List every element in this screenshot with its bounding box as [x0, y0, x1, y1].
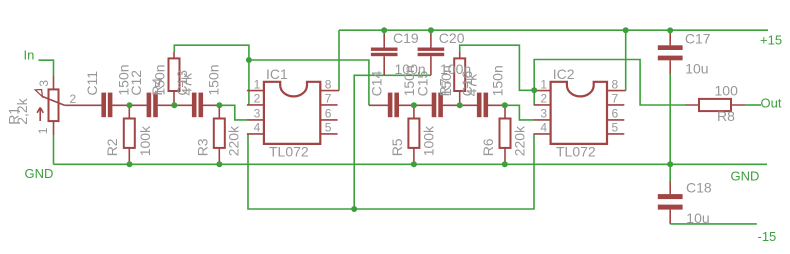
junction C14 R5 C15 — [411, 102, 417, 108]
op-amp IC2 body outline — [551, 82, 607, 144]
junction node B IC2 pins1-2 — [531, 87, 537, 93]
op-amp IC1 pin 6 stub — [320, 119, 337, 121]
op-amp IC1 pin 2 stub — [247, 104, 264, 106]
svg-text:1: 1 — [254, 77, 261, 91]
resistor R6 leads — [504, 105, 506, 164]
svg-text:Out: Out — [761, 96, 782, 111]
capacitor C12 plates — [147, 93, 152, 118]
wire R7 top feedback to IC2 pins1-2 — [460, 45, 535, 90]
wire pot wiper to C11 — [65, 104, 102, 106]
op-amp IC2 pin 8 stub — [607, 90, 626, 92]
svg-text:R7: R7 — [436, 78, 452, 96]
wire IC2 pin2 link — [533, 90, 535, 105]
svg-text:2: 2 — [540, 92, 547, 106]
resistor R8 leads — [685, 104, 745, 106]
capacitor C13 plates — [192, 93, 197, 118]
op-amp IC2 pin 6 stub — [607, 119, 624, 121]
wire IC1 pins1-2 tie — [248, 60, 250, 105]
junction R3 GND — [216, 161, 222, 167]
wire IC2 pin3 jog — [505, 105, 534, 120]
svg-text:47k: 47k — [464, 73, 480, 97]
svg-text:C20: C20 — [439, 30, 465, 46]
svg-text:IC1: IC1 — [266, 66, 288, 82]
potentiometer R1 trim arrow — [37, 108, 43, 122]
svg-text:47k: 47k — [179, 72, 195, 96]
op-amp IC1 pin 8 stub — [320, 90, 339, 92]
svg-text:10u: 10u — [686, 210, 709, 226]
wire In lead — [39, 60, 54, 75]
svg-text:100k: 100k — [420, 125, 436, 156]
resistor R8 body — [699, 99, 731, 111]
svg-text:100k: 100k — [137, 125, 153, 156]
svg-text:R6: R6 — [480, 138, 496, 156]
junction R2 GND — [127, 161, 133, 167]
capacitor C20 plates — [418, 48, 445, 51]
wire C18 bottom to -15 — [670, 223, 757, 225]
wire GND rail — [54, 163, 768, 165]
wire C14 to junction R5 — [399, 104, 432, 106]
resistor R5 body — [408, 119, 419, 148]
junction C12 R4 C13 — [171, 102, 177, 108]
svg-text:6: 6 — [612, 107, 619, 121]
wire IC1 pin8 riser — [338, 30, 340, 90]
svg-text:In: In — [24, 47, 35, 62]
capacitor C11 plates — [101, 93, 106, 118]
node A to stage2 input drop — [249, 60, 369, 105]
op-amp IC1 pin 1 stub — [247, 90, 264, 92]
op-amp IC2 pin 3 stub — [534, 119, 551, 121]
junction C17 C18 GND — [667, 161, 673, 167]
svg-text:GND: GND — [731, 169, 760, 184]
svg-text:1: 1 — [36, 127, 50, 134]
wire +15 rail — [339, 29, 768, 31]
svg-text:5: 5 — [325, 121, 332, 135]
junction C20 +15 rail — [428, 27, 434, 33]
resistor R7 leads — [459, 52, 461, 105]
wire stage2 input to C14 — [369, 104, 388, 106]
capacitor C14 plates — [388, 93, 393, 118]
wire C15 to junction R7 to C16 — [443, 104, 477, 106]
op-amp IC1 pin 7 stub — [320, 104, 337, 106]
wire C11 to junction — [112, 104, 146, 106]
svg-text:7: 7 — [612, 92, 619, 106]
capacitor C19 leads — [383, 30, 385, 75]
svg-text:10u: 10u — [685, 60, 708, 76]
junction R5 GND — [411, 161, 417, 167]
op-amp IC1 body outline — [264, 82, 320, 144]
wire R4 top to node A — [174, 45, 249, 60]
svg-text:4: 4 — [254, 121, 261, 135]
svg-text:2: 2 — [254, 92, 261, 106]
potentiometer R1 wiper arrowhead — [35, 90, 42, 97]
svg-text:C17: C17 — [685, 30, 711, 46]
wire IC1 pin3 jog — [219, 105, 247, 120]
svg-text:3: 3 — [37, 80, 51, 87]
svg-text:C15: C15 — [415, 71, 431, 97]
junction C11 R2 C12 — [127, 102, 133, 108]
op-amp IC1 pin 4 stub — [247, 133, 264, 135]
capacitor C17 leads — [669, 30, 671, 74]
svg-text:R8: R8 — [717, 108, 735, 124]
svg-text:150n: 150n — [205, 64, 221, 95]
resistor R4 body — [169, 58, 180, 91]
svg-text:3: 3 — [254, 107, 261, 121]
capacitor C15 plates — [432, 93, 437, 118]
junction C17 +15 rail — [667, 27, 673, 33]
op-amp IC2 pin 4 stub — [534, 133, 551, 135]
junction node A IC1 pins1-2 — [246, 57, 252, 63]
svg-text:R3: R3 — [194, 138, 210, 156]
resistor R2 leads — [128, 105, 130, 164]
junction V- bus riser — [351, 206, 357, 212]
svg-text:3: 3 — [540, 107, 547, 121]
svg-text:C11: C11 — [84, 71, 100, 96]
resistor R4 leads — [173, 52, 175, 105]
resistor R6 body — [500, 119, 511, 148]
potentiometer R1 pin 3 stub — [53, 75, 55, 89]
svg-text:5: 5 — [612, 121, 619, 135]
wire IC2 pin8 riser — [625, 30, 627, 90]
svg-text:+15: +15 — [760, 32, 782, 47]
svg-text:GND: GND — [25, 166, 54, 181]
svg-text:2,2k: 2,2k — [14, 97, 30, 124]
junction IC2 pin8 riser +15 rail — [623, 27, 629, 33]
op-amp IC2 pin 1 stub — [534, 90, 551, 92]
svg-text:1: 1 — [540, 77, 547, 91]
svg-text:6: 6 — [325, 107, 332, 121]
wire R8 to Out — [745, 104, 761, 106]
junction C16 R6 pin3 — [502, 102, 508, 108]
capacitor C20 leads — [430, 30, 432, 75]
wire C12 to junction R4 — [158, 104, 192, 106]
op-amp IC2 pin 2 stub — [534, 104, 551, 106]
svg-text:220k: 220k — [225, 125, 241, 156]
svg-text:C12: C12 — [128, 70, 144, 96]
wire C16 to junction R6 — [488, 104, 506, 106]
svg-text:TL072: TL072 — [269, 144, 309, 160]
potentiometer R1 pin 1 stub — [53, 121, 55, 135]
junction C13 R3 pin3 — [216, 102, 222, 108]
junction C15 R7 C16 — [457, 102, 463, 108]
svg-text:C19: C19 — [393, 30, 419, 46]
svg-text:R4: R4 — [149, 77, 165, 95]
op-amp IC2 pin 5 stub — [607, 133, 624, 135]
svg-text:150n: 150n — [490, 65, 506, 96]
capacitor C16 plates — [477, 93, 482, 118]
potentiometer R1 wiper diagonal — [42, 96, 65, 105]
potentiometer R1 body — [49, 89, 59, 121]
op-amp IC1 pin 5 stub — [320, 133, 337, 135]
svg-text:R2: R2 — [104, 138, 120, 156]
op-amp IC2 pin 7 stub — [607, 104, 624, 106]
svg-text:-15: -15 — [758, 229, 777, 244]
svg-text:C14: C14 — [369, 71, 385, 97]
svg-text:4: 4 — [540, 121, 547, 135]
junction R6 GND — [502, 161, 508, 167]
wire C17 bottom to GND rail — [669, 74, 671, 164]
wire IC1 pin4 drop, V- bus, IC2 pin4 riser — [248, 134, 534, 209]
svg-text:7: 7 — [325, 92, 332, 106]
svg-text:TL072: TL072 — [556, 144, 596, 160]
wire C13 to junction R3 — [203, 104, 220, 106]
capacitor C18 leads — [669, 181, 671, 224]
svg-text:8: 8 — [325, 77, 332, 91]
svg-text:2: 2 — [70, 92, 77, 106]
resistor R2 body — [124, 119, 135, 148]
resistor R3 leads — [218, 105, 220, 164]
wire IC2 node B across and down to R8 — [534, 60, 685, 106]
svg-text:C18: C18 — [686, 179, 712, 195]
wire GND rail to C18 top — [669, 164, 671, 181]
wire mid riser to C19 C20 bottoms — [354, 75, 431, 209]
capacitor C17 plates — [658, 45, 683, 50]
op-amp IC1 pin 3 stub — [247, 119, 264, 121]
resistor R7 body — [454, 58, 465, 91]
svg-text:R5: R5 — [389, 138, 405, 156]
svg-text:8: 8 — [612, 77, 619, 91]
junction C19 +15 rail — [381, 27, 387, 33]
resistor R5 leads — [413, 105, 415, 164]
capacitor C19 plates — [371, 48, 398, 51]
capacitor C18 plates — [658, 194, 683, 199]
svg-text:100: 100 — [715, 82, 739, 98]
svg-text:IC2: IC2 — [553, 66, 575, 82]
svg-text:220k: 220k — [512, 125, 528, 156]
resistor R3 body — [214, 119, 225, 148]
wire pot pin1 to GND rail — [53, 135, 55, 164]
